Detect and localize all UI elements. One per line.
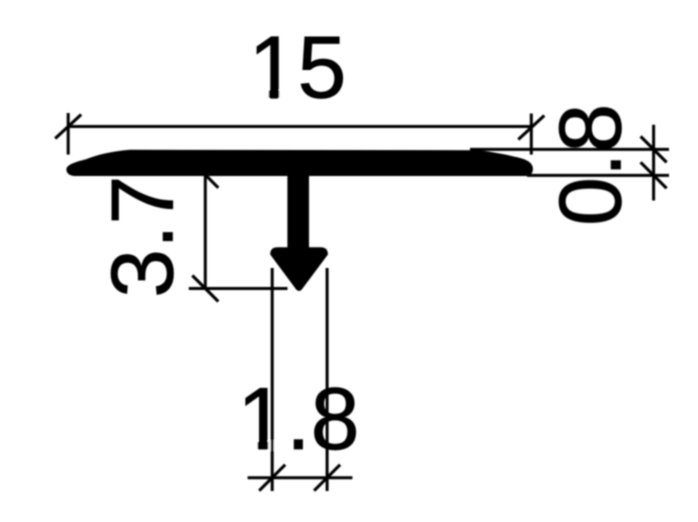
dim 3.7: bottom tick (192, 276, 218, 302)
dim 3.7: dimension line (204, 175, 207, 289)
dim 3.7: top tick (192, 162, 218, 188)
dim 15: left extension line (67, 113, 70, 155)
dim 15: dimension line (68, 125, 531, 128)
dim 15: right extension line (530, 114, 533, 155)
dim 0.8: dimension line (652, 125, 655, 201)
dim 0.8: bottom tick (641, 162, 667, 188)
dim 15: right tick (518, 116, 544, 140)
svg-text:1.8: 1.8 (237, 369, 359, 468)
dim 3.7: extension line at arrow apex level (189, 287, 288, 290)
dim 1.8: dimension line (248, 476, 353, 479)
dim 0.8: bottom extension line (527, 174, 669, 177)
dim 0.8: top extension line (470, 148, 669, 151)
dim 15: white patches to remove foot serif of digit 1 (252, 90, 269, 100)
dim 0.8: top tick (641, 136, 667, 162)
profile body: T-profile flange (66, 150, 533, 176)
profile stem (287, 170, 309, 252)
dim 1.8: right tick (314, 465, 340, 491)
dim 15: left tick (55, 115, 81, 139)
profile arrow head (270, 247, 328, 291)
svg-text:15: 15 (249, 18, 347, 117)
svg-text:0.8: 0.8 (541, 104, 640, 226)
svg-text:3.7: 3.7 (93, 176, 192, 298)
dim 1.8: right extension line (326, 268, 329, 491)
dim 1.8: white patches to remove foot serif of digit 1 (241, 441, 258, 451)
dim 1.8: left extension line (271, 268, 274, 491)
dim 1.8: left tick (259, 465, 285, 491)
